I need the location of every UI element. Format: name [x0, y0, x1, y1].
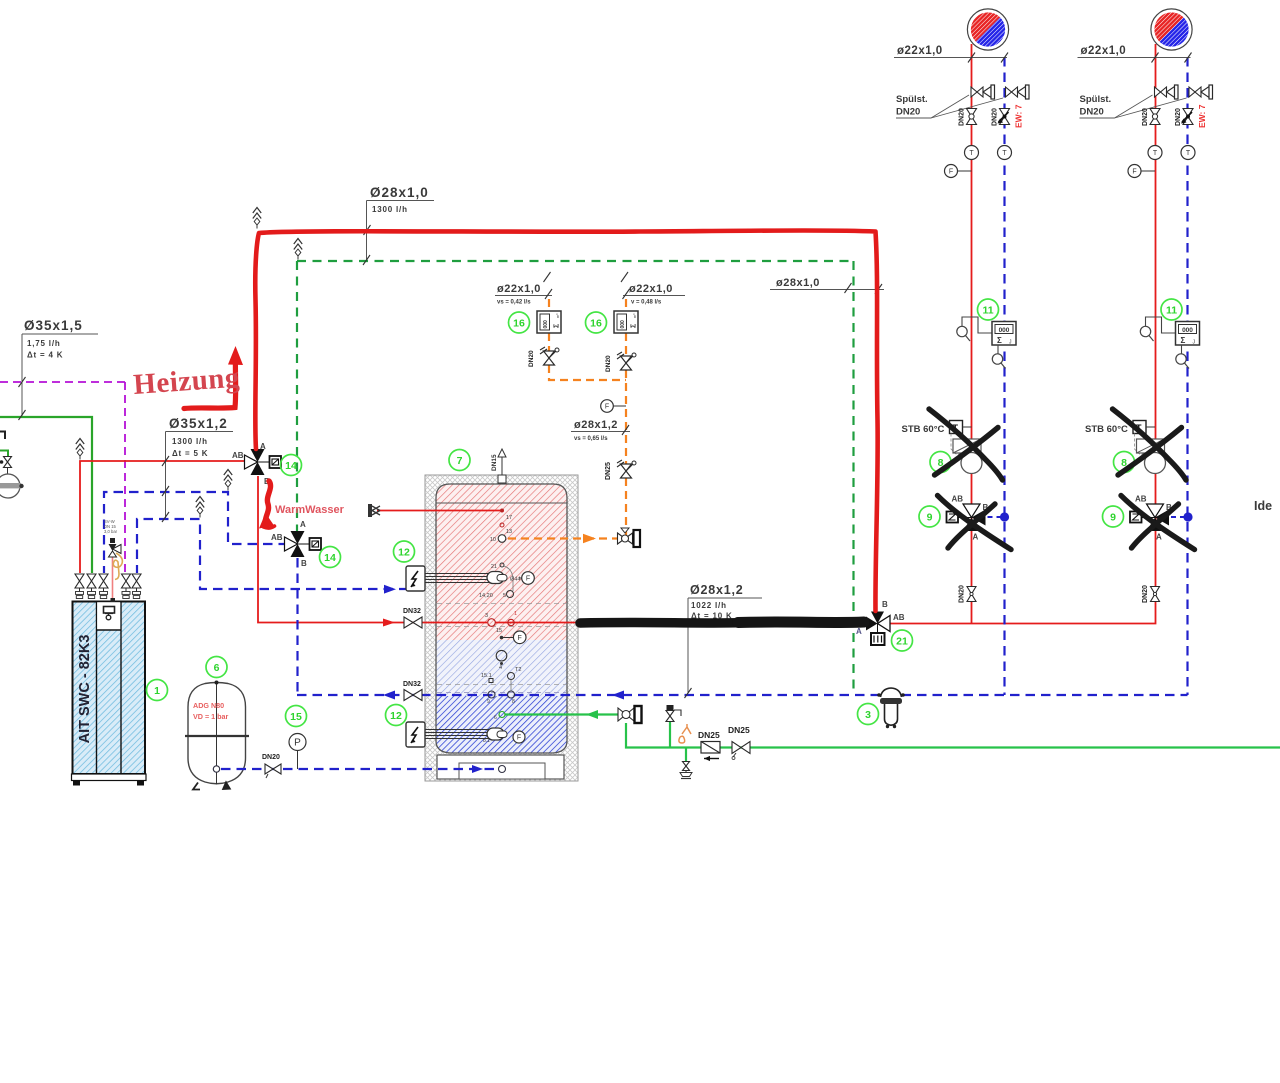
- svg-text:AB: AB: [232, 451, 244, 460]
- svg-text:000: 000: [543, 320, 549, 329]
- flush tap 2 branch 1: [1006, 85, 1030, 99]
- label WarmWasser: [275, 504, 345, 516]
- left edge pump circle: [0, 474, 24, 498]
- svg-text:A: A: [300, 520, 306, 529]
- wire green dashed control zone right: [852, 261, 854, 694]
- svg-text:WarmWasser: WarmWasser: [275, 504, 345, 516]
- wire green source line horizontal: [0, 417, 92, 573]
- thermometer hot branch 2: [1148, 146, 1162, 160]
- svg-text:16: 16: [513, 318, 525, 330]
- svg-text:Ide: Ide: [1254, 499, 1272, 513]
- svg-text:T: T: [1153, 150, 1158, 157]
- svg-text:Spülst.: Spülst.: [1080, 94, 1112, 105]
- svg-text:F: F: [1132, 169, 1136, 176]
- valve DN20 vessel line: [262, 754, 281, 778]
- check valve DN25: [698, 730, 720, 761]
- svg-text:DN20: DN20: [896, 107, 920, 118]
- svg-text:AIT SWC - 82K3: AIT SWC - 82K3: [77, 635, 93, 744]
- pressure gauge 15: [289, 734, 306, 770]
- svg-text:AB: AB: [952, 495, 964, 504]
- air vent hp supply: [76, 439, 84, 460]
- strainer filter 3: [877, 688, 905, 728]
- svg-text:ø28x1,2: ø28x1,2: [574, 419, 618, 431]
- air vent control: [294, 239, 302, 260]
- svg-text:Ø28x1,0: Ø28x1,0: [370, 185, 429, 200]
- blue return arrow left near tank: [383, 691, 395, 700]
- svg-text:AB: AB: [271, 533, 283, 542]
- svg-text:DN20: DN20: [1080, 107, 1104, 118]
- svg-text:Δt = 4 K: Δt = 4 K: [27, 351, 63, 360]
- svg-text:14,20: 14,20: [479, 593, 493, 599]
- heat pump control icon: [104, 607, 115, 620]
- circulation sensor F: [601, 400, 626, 413]
- svg-text:B: B: [301, 559, 307, 568]
- safety valve heat pump: [104, 519, 121, 602]
- svg-text:B: B: [882, 600, 888, 609]
- tank port 13: [500, 523, 512, 535]
- black cross over valve 9 (right): [1121, 496, 1195, 550]
- electric heater 12 upper: [406, 566, 507, 591]
- svg-text:1022 l/h: 1022 l/h: [691, 601, 727, 610]
- tank port 17: [500, 509, 512, 522]
- svg-text:Spülst.: Spülst.: [896, 94, 928, 105]
- heat meter 11 branch 2: [1140, 317, 1199, 369]
- label o22x1,0 branch 1: [894, 45, 1008, 63]
- svg-text:m³: m³: [633, 313, 637, 318]
- circulation pump 8 branch 2: [1137, 439, 1166, 474]
- flush tap 1 branch 2: [1155, 85, 1179, 99]
- svg-text:F: F: [518, 635, 522, 642]
- air vent hp return B: [196, 497, 204, 518]
- buffer tank 7 insulation: [425, 475, 578, 781]
- wire orange into tank: [508, 537, 618, 539]
- label o28x1,2 circ: [571, 419, 630, 442]
- heat meter 16 left: [537, 311, 561, 333]
- svg-text:vs = 0,65 l/s: vs = 0,65 l/s: [574, 436, 608, 442]
- svg-text:17: 17: [506, 515, 512, 521]
- svg-text:Σ: Σ: [554, 324, 561, 328]
- wire blue tank heater level to heat pump path: [137, 519, 424, 589]
- flow sensor F branch 2: [1128, 165, 1155, 178]
- wire orange right riser upper: [625, 299, 627, 311]
- label Ide right edge: [1254, 499, 1272, 513]
- blue junction dot branch 2: [1171, 512, 1193, 521]
- blue arrow into tank heater level: [384, 585, 396, 594]
- svg-text:6: 6: [214, 662, 220, 674]
- mixing valve 9 branch 2: [1130, 495, 1172, 542]
- green circle 9 branch 1: [919, 506, 940, 527]
- green circle 9 branch 2: [1103, 506, 1124, 527]
- wire red warm water tank top: [377, 510, 500, 512]
- circulation valve DN20 left: [528, 347, 559, 367]
- tank port T2: [508, 667, 522, 691]
- svg-text:DN20: DN20: [262, 754, 280, 761]
- tank bottom ports: [487, 691, 515, 705]
- label o28x1,0 right: [770, 277, 884, 294]
- svg-text:DN25: DN25: [698, 730, 720, 740]
- svg-text:Σ: Σ: [1181, 336, 1186, 345]
- svg-text:ø22x1,0: ø22x1,0: [629, 283, 673, 295]
- circulation pump valve at tank: [618, 528, 641, 547]
- wire blue valve14 AB to heat pump path: [104, 492, 288, 573]
- freehand WarmWasser arrow: [259, 481, 275, 529]
- svg-text:m³: m³: [556, 313, 560, 318]
- check valve cold branch 1: [992, 108, 1010, 126]
- flush tap 2 branch 2: [1189, 85, 1213, 99]
- red flow arrow into tank: [383, 619, 395, 627]
- svg-text:F: F: [517, 735, 521, 742]
- green circle 11 branch 2: [1161, 299, 1182, 320]
- label o22x1,0 circ right: [621, 272, 685, 306]
- svg-text:9: 9: [1110, 512, 1116, 524]
- STB thermostat branch 2: [1085, 421, 1155, 456]
- svg-text:12: 12: [390, 710, 402, 722]
- three-way valve 14 warm water: [271, 520, 321, 568]
- svg-text:000: 000: [999, 327, 1010, 334]
- green circle 8 branch 1: [930, 452, 951, 473]
- green circle 1: [147, 680, 168, 701]
- buffer tank 7 vessel body: [436, 484, 567, 753]
- svg-text:STB 60°C: STB 60°C: [902, 424, 945, 435]
- svg-text:v = 0,48 l/s: v = 0,48 l/s: [631, 300, 662, 306]
- green circle 16 right: [586, 312, 607, 333]
- capped flange on warm water stub: [368, 504, 380, 517]
- cold water inlet valve with blind flange: [618, 706, 642, 723]
- heat pump 1 body: [73, 602, 146, 775]
- label EW7 branch 1: [1014, 104, 1024, 128]
- svg-text:Δt = 5 K: Δt = 5 K: [172, 449, 208, 458]
- svg-text:ø28x1,0: ø28x1,0: [776, 277, 820, 289]
- svg-text:T2: T2: [515, 667, 521, 673]
- svg-text:1: 1: [154, 685, 160, 697]
- svg-text:Σ: Σ: [997, 336, 1002, 345]
- label EW7 branch 2: [1197, 104, 1207, 128]
- wire blue return main horizontal: [297, 694, 1188, 696]
- svg-text:7: 7: [457, 455, 463, 467]
- flush tap 1 branch 1: [971, 85, 995, 99]
- safety valve cold water: [666, 705, 681, 722]
- svg-text:12: 12: [398, 547, 410, 559]
- tank bottom port circle: [499, 766, 506, 773]
- circulation valve DN20 right: [605, 352, 636, 372]
- siphon hose: [113, 553, 122, 580]
- svg-text:11: 11: [1166, 305, 1177, 317]
- heat meter 16 right: [614, 311, 638, 333]
- black cross over valve 9 (left): [938, 496, 1012, 550]
- label o22x1,0 circ left: [495, 272, 552, 306]
- expansion vessel label: [193, 701, 229, 721]
- wire red heating supply from pump to valve 14: [80, 461, 247, 573]
- wire blue riser branch 1: [1003, 57, 1005, 695]
- green circle 14 heating: [281, 455, 302, 476]
- heat pump isolation valve purple: [122, 574, 131, 599]
- mixing valve 9 branch 1: [947, 495, 989, 542]
- heat meter 11 branch 1: [957, 317, 1016, 369]
- valve DN32 return: [403, 681, 422, 701]
- svg-text:5: 5: [503, 593, 506, 599]
- thermometer cold branch 1: [998, 146, 1012, 160]
- green circle 21: [892, 630, 913, 651]
- tank port 15 with sensor F: [496, 628, 526, 644]
- svg-text:1300 l/h: 1300 l/h: [372, 205, 408, 214]
- heat pump isolation valve red: [75, 574, 84, 599]
- svg-text:15: 15: [496, 628, 502, 634]
- svg-text:F: F: [526, 576, 530, 583]
- orange arrow: [583, 534, 596, 543]
- svg-text:DN20: DN20: [605, 355, 612, 372]
- svg-text:6: 6: [494, 715, 497, 721]
- wire red riser branch 1: [971, 44, 973, 624]
- expansion vessel 6: [185, 681, 249, 790]
- storage circle branch 1: [967, 9, 1008, 50]
- three-way valve 21: [856, 600, 905, 645]
- thick black marker tank to valve 21: [580, 622, 864, 623]
- drain valve with funnel: [680, 762, 692, 779]
- green circle 16 left: [509, 312, 530, 333]
- svg-text:EW: 7: EW: 7: [1197, 104, 1207, 128]
- green circle 12 lower: [386, 705, 407, 726]
- svg-text:A: A: [973, 533, 979, 542]
- left edge small valve: [0, 457, 12, 475]
- label O28x1,0 top: [363, 185, 434, 265]
- heat pump label: [77, 635, 93, 744]
- label Spuelst branch 1: [896, 94, 1003, 118]
- svg-text:21: 21: [896, 636, 908, 648]
- svg-text:F: F: [949, 169, 953, 176]
- svg-text:3,0 bar: 3,0 bar: [104, 529, 118, 534]
- tank cold water port: [494, 712, 505, 722]
- svg-text:T: T: [1002, 150, 1007, 157]
- tank port 21: [491, 563, 513, 591]
- svg-text:AB: AB: [893, 613, 905, 622]
- svg-text:ø22x1,0: ø22x1,0: [1081, 45, 1127, 57]
- wire red from valve 14 down to tank inlet: [258, 476, 487, 623]
- three-way valve 14 heating: [232, 442, 281, 486]
- svg-text:T: T: [969, 150, 974, 157]
- tank port 4: [496, 650, 507, 671]
- svg-text:000: 000: [620, 320, 626, 329]
- tank port 15.1: [481, 673, 493, 683]
- svg-text:F: F: [605, 404, 609, 411]
- freehand red heating supply marker: [255, 230, 877, 611]
- heater upper label and sensor F: [510, 572, 534, 585]
- green circle 7: [449, 450, 470, 471]
- thermometer hot branch 1: [965, 146, 979, 160]
- svg-text:10: 10: [490, 537, 496, 543]
- STB thermostat branch 1: [902, 421, 972, 456]
- svg-text:T: T: [1186, 150, 1191, 157]
- wire red inside tank mid port: [495, 622, 873, 624]
- svg-text:Ø44: Ø44: [510, 577, 520, 583]
- svg-text:P: P: [294, 738, 301, 749]
- svg-text:ADG N80: ADG N80: [193, 701, 224, 710]
- valve DN20 hot branch 1: [959, 108, 977, 126]
- svg-text:1: 1: [514, 611, 517, 617]
- wire green drain branch: [685, 748, 687, 763]
- wire green dashed control zone top: [297, 260, 854, 262]
- svg-text:AB: AB: [1135, 495, 1147, 504]
- green circle 15: [286, 706, 307, 727]
- svg-text:14: 14: [324, 552, 336, 564]
- svg-text:Ø28x1,2: Ø28x1,2: [690, 583, 744, 597]
- electric heater 12 lower: [406, 722, 525, 747]
- wire green down from pump: [626, 723, 1280, 748]
- svg-text:21: 21: [491, 564, 497, 570]
- svg-text:Ø35x1,2: Ø35x1,2: [169, 416, 228, 431]
- svg-text:15.1: 15.1: [481, 673, 492, 679]
- svg-text:1,75 l/h: 1,75 l/h: [27, 339, 61, 348]
- svg-text:8.1: 8.1: [483, 738, 490, 744]
- svg-text:DN15: DN15: [491, 454, 498, 471]
- tank port 1: [508, 611, 517, 626]
- valve DN32 supply: [403, 608, 422, 628]
- svg-text:3: 3: [485, 613, 488, 619]
- heat pump isolation valve blue B: [132, 574, 141, 599]
- air vent hp return A: [224, 470, 232, 491]
- wire blue riser branch 2: [1186, 57, 1188, 695]
- svg-text:ø22x1,0: ø22x1,0: [497, 283, 541, 295]
- svg-text:1300 l/h: 1300 l/h: [172, 437, 208, 446]
- svg-text:DN20: DN20: [1142, 585, 1149, 603]
- wire blue from valve 14 B down: [296, 558, 298, 695]
- freehand Heizung arrow: [184, 346, 243, 409]
- shutoff valve DN25: [728, 725, 750, 760]
- wire orange circulation left riser: [548, 299, 550, 311]
- svg-text:A: A: [260, 442, 266, 451]
- thermometer cold branch 2: [1181, 146, 1195, 160]
- valve DN20 lower branch 2: [1142, 585, 1160, 603]
- storage circle branch 2: [1151, 9, 1192, 50]
- blue return arrow mid: [612, 691, 624, 700]
- wire orange right riser lower: [625, 478, 627, 539]
- svg-text:DN25: DN25: [728, 725, 750, 735]
- svg-text:3: 3: [865, 709, 871, 721]
- label o22x1,0 branch 2: [1078, 45, 1192, 63]
- green circle 12 upper: [394, 541, 415, 562]
- svg-text:Σ: Σ: [631, 324, 638, 328]
- green circle 6: [206, 657, 227, 678]
- svg-text:EW: 7: EW: 7: [1014, 104, 1024, 128]
- label O28x1,2 main: [685, 583, 763, 698]
- heat pump isolation valve green: [87, 574, 96, 599]
- wire orange right riser middle: [625, 370, 627, 464]
- svg-text:DN32: DN32: [403, 608, 421, 615]
- label Spuelst branch 2: [1080, 94, 1187, 118]
- svg-text:A: A: [856, 627, 862, 636]
- left edge bracket fragment: [0, 432, 5, 440]
- wire red distribution right of valve 21: [889, 44, 1156, 624]
- svg-text:13: 13: [506, 529, 512, 535]
- svg-text:DN20: DN20: [1142, 108, 1149, 126]
- svg-text:16: 16: [590, 318, 602, 330]
- svg-text:ø22x1,0: ø22x1,0: [897, 45, 943, 57]
- tank port 5 / 14,20: [479, 591, 514, 600]
- valve DN20 hot branch 2: [1142, 108, 1160, 126]
- tank port 10: [490, 535, 506, 543]
- wire green safety valve branch: [669, 722, 671, 748]
- svg-text:DN32: DN32: [403, 681, 421, 688]
- heat pump isolation valve blue A: [99, 574, 108, 599]
- svg-text:9: 9: [487, 699, 490, 705]
- tank port 3: [485, 613, 495, 626]
- wire orange left riser lower + cross bar: [549, 365, 626, 380]
- wire blue expansion vessel line: [221, 768, 498, 770]
- green circle 14 warm water: [320, 547, 341, 568]
- black cross over pump 8 (right): [1113, 409, 1187, 480]
- green arrow pointing left: [586, 710, 598, 719]
- label Heizung: [132, 362, 241, 401]
- green circle 11 branch 1: [978, 299, 999, 320]
- circulation pump 8 branch 1: [953, 439, 982, 474]
- check valve cold branch 2: [1175, 108, 1193, 126]
- svg-text:VD = 1 bar: VD = 1 bar: [193, 712, 229, 721]
- siphon cold water: [679, 724, 691, 743]
- svg-text:DN20: DN20: [959, 108, 966, 126]
- flow sensor F branch 1: [945, 165, 972, 178]
- wire green cold water from tank to pump: [505, 713, 618, 715]
- svg-text:Ø35x1,5: Ø35x1,5: [24, 318, 83, 333]
- circulation valve DN25: [605, 460, 636, 480]
- svg-text:DN20: DN20: [992, 108, 999, 126]
- wire purple expansion line vertical: [124, 382, 126, 572]
- svg-text:STB 60°C: STB 60°C: [1085, 424, 1128, 435]
- svg-text:4: 4: [499, 665, 502, 671]
- label O35x1,2: [162, 416, 233, 522]
- wire purple expansion line horizontal: [0, 381, 125, 383]
- air vent main supply: [253, 208, 261, 229]
- svg-text:8: 8: [512, 699, 515, 705]
- tank internal separators: [437, 604, 566, 693]
- svg-text:vs = 0,42 l/s: vs = 0,42 l/s: [497, 300, 531, 306]
- svg-text:DN20: DN20: [1175, 108, 1182, 126]
- label O35x1,5: [19, 318, 99, 420]
- svg-text:DN20: DN20: [959, 585, 966, 603]
- blue junction dot branch 1: [988, 512, 1010, 521]
- green circle 3: [858, 704, 879, 725]
- valve DN20 lower branch 1: [959, 585, 977, 603]
- svg-text:DN20: DN20: [528, 350, 535, 367]
- black cross over pump 8 (left): [929, 409, 1003, 480]
- svg-text:A: A: [1156, 533, 1162, 542]
- wire green dashed control zone left: [296, 261, 298, 531]
- wire green source stub left edge: [0, 451, 8, 457]
- green circle 8 branch 2: [1114, 452, 1135, 473]
- svg-text:000: 000: [1182, 327, 1193, 334]
- svg-text:11: 11: [982, 305, 993, 317]
- blue arrow on vessel line: [472, 765, 483, 773]
- heat pump plinth: [72, 774, 147, 786]
- tank pedestal: [437, 755, 564, 779]
- svg-text:DN25: DN25: [605, 462, 612, 480]
- tank DN15 air vent: [491, 449, 506, 483]
- svg-text:9: 9: [927, 512, 933, 524]
- svg-text:14: 14: [285, 460, 297, 472]
- svg-text:15: 15: [290, 711, 302, 723]
